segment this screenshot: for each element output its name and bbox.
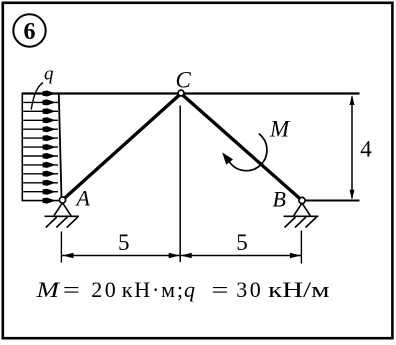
distributed load left edge xyxy=(21,93,23,202)
hinge node B xyxy=(299,197,305,203)
support A hatching xyxy=(46,217,78,228)
distributed load right edge (loaded member) xyxy=(59,94,62,199)
support B ground line xyxy=(284,215,319,217)
distributed load bottom edge xyxy=(22,200,59,202)
svg-text:4: 4 xyxy=(360,137,372,162)
hinge node A xyxy=(59,197,65,203)
dimension 4 bottom arrowhead xyxy=(350,190,355,200)
support B hatching xyxy=(285,217,317,228)
moment M arrowhead xyxy=(222,152,233,164)
extension line below A xyxy=(60,232,62,263)
vertical line below C (center extension) xyxy=(179,106,181,263)
svg-text:A: A xyxy=(75,186,91,211)
extension line below B xyxy=(300,231,302,264)
hinge node C xyxy=(178,90,184,96)
svg-text:5: 5 xyxy=(236,230,248,255)
svg-text:C: C xyxy=(176,68,192,93)
pin support A triangle xyxy=(54,203,71,216)
bottom dimension arrowheads xyxy=(63,253,301,258)
bottom line from B to dimension xyxy=(306,200,360,202)
dimension 4 top arrowhead xyxy=(350,95,355,105)
leader line from q xyxy=(31,83,43,110)
distributed load q arrows xyxy=(23,91,58,204)
bottom dimension line xyxy=(62,255,301,257)
svg-text:6: 6 xyxy=(24,19,36,45)
member AC xyxy=(63,94,182,201)
moment M arc xyxy=(229,134,267,171)
dimension 4 line xyxy=(351,97,353,199)
svg-text:M: M xyxy=(269,117,291,142)
member CB xyxy=(181,94,302,201)
svg-text:B: B xyxy=(273,187,286,212)
svg-text:q: q xyxy=(44,64,54,85)
support A ground line xyxy=(45,215,80,217)
pin support B triangle xyxy=(294,203,310,215)
problem number badge circle xyxy=(13,14,45,46)
svg-text:5: 5 xyxy=(118,230,130,255)
top chord line xyxy=(22,92,360,94)
svg-text:M=20кН·м;q=30кН/м: M=20кН·м;q=30кН/м xyxy=(35,277,329,302)
